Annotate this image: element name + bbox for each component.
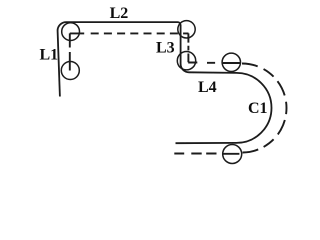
svg-text:L4: L4 — [198, 79, 217, 96]
svg-text:L1: L1 — [40, 47, 59, 64]
svg-text:L3: L3 — [156, 40, 175, 57]
svg-text:L2: L2 — [110, 5, 129, 22]
svg-text:C1: C1 — [248, 100, 268, 117]
